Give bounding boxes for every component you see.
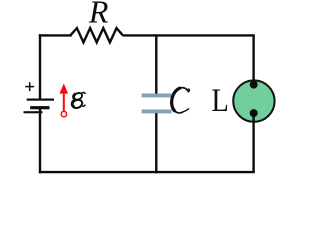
emf arrow tail circle (red) bbox=[61, 111, 66, 116]
battery B1 plate long positive bbox=[27, 99, 54, 101]
node junction top-middle bbox=[156, 34, 253, 36]
resistor R1 zigzag bbox=[70, 28, 123, 42]
battery B1 plate lower thin bbox=[24, 111, 43, 113]
wire top-left segment bbox=[40, 34, 71, 36]
battery B1 plate thick negative bbox=[30, 106, 49, 109]
wire left upper bbox=[39, 35, 41, 99]
emf arrow (red) bbox=[60, 84, 69, 94]
wire right lower bbox=[252, 113, 254, 172]
capacitor C1 bottom plate bbox=[142, 110, 172, 114]
wire middle upper bbox=[155, 35, 157, 94]
svg-text:R: R bbox=[88, 0, 109, 30]
wire left lower bbox=[39, 108, 41, 172]
lamp L1 top electrode dot bbox=[250, 81, 258, 89]
battery B1 plus sign bbox=[25, 82, 34, 91]
svg-text:L: L bbox=[211, 83, 228, 119]
wire top-middle segment bbox=[123, 34, 157, 36]
label C bbox=[172, 88, 190, 113]
lamp L1 bulb circle bbox=[233, 80, 274, 121]
wire bottom right segment bbox=[156, 171, 253, 173]
capacitor C1 top plate bbox=[142, 94, 172, 98]
wire right upper bbox=[252, 35, 254, 85]
label script E (emf) bbox=[71, 92, 85, 110]
wire middle lower bbox=[155, 113, 157, 172]
wire bottom left segment bbox=[40, 171, 156, 173]
lamp L1 bottom electrode dot bbox=[250, 109, 258, 117]
